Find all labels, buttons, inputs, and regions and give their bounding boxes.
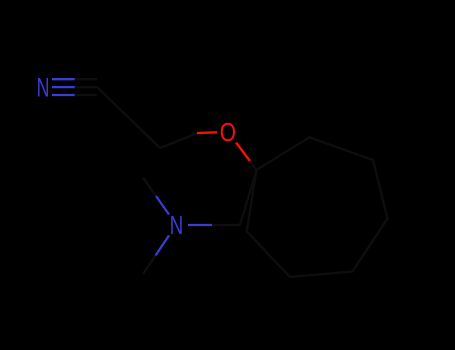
triple bond C#N (carbon half) [75,79,97,95]
bond N-CH2 carbon half [212,224,240,226]
bond N-CH3 (methyl down-left) nitrogen half [156,236,170,256]
wire: chain bond CH2-CH2 [160,133,198,148]
svg-text:N: N [37,73,50,103]
bond ring-C to CH2(N) [240,170,257,225]
bond N-CH2 nitrogen half (blue) [188,224,212,226]
bond O-C(ring) oxygen half (red) [236,143,250,162]
svg-text:N: N [170,210,184,240]
bond N-CH3 (methyl down-left) carbon half [143,256,156,275]
svg-text:O: O [220,117,236,147]
wire: chain bond C-CH2 (collinear pair) [97,87,160,148]
bond N-CH3 (methyl up-left) nitrogen half [156,196,169,215]
bond O-C(ring) carbon half [250,161,257,170]
cycloheptane ring [247,137,388,277]
bond N-CH3 (methyl up-left) carbon half [143,178,156,197]
triple bond C#N (blue half near N) [52,79,75,95]
bond CH2-O (red, full) [197,131,217,134]
